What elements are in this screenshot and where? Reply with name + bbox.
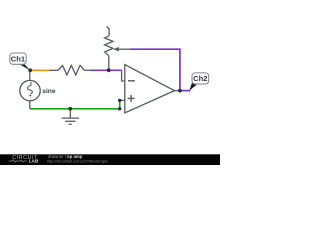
Ch1 probe pointer (19, 64, 30, 71)
ground symbol (69, 109, 71, 118)
svg-text:Ch1: Ch1 (11, 54, 26, 63)
rheostat R2 top lead with hook (107, 26, 110, 35)
rheostat R2 wiper arrow (118, 48, 130, 50)
op-amp U1 plus sign (128, 97, 135, 99)
voltage source V1 top lead (29, 70, 31, 80)
wire: green ground net from source bottom to op-amp non-inverting input (30, 100, 120, 108)
wire: op-amp inverting input step-down (gray) (122, 70, 125, 81)
voltage source V1 bottom lead (29, 101, 31, 109)
junction dot: R2 bottom / inverting net (107, 68, 111, 72)
Ch2 probe label (192, 73, 209, 84)
rheostat R2 zigzag (vertical) (105, 36, 113, 56)
wire: orange net Ch1 from source top junction to R1 left lead (30, 69, 50, 71)
wire: purple feedback net from rheostat wiper to output (top, right side) (130, 49, 191, 90)
op-amp U1 triangle (125, 65, 175, 113)
junction dot: Ch1 / source / R1 (28, 68, 32, 72)
op-amp U1 minus sign (128, 80, 135, 82)
resistor R1 zigzag (58, 65, 84, 75)
resistor R1 leads (gray) (50, 69, 59, 71)
svg-text:Ch2: Ch2 (193, 74, 207, 83)
junction dot: ground tap (68, 107, 72, 111)
voltage source V1 sine glyph (28, 82, 33, 94)
Ch2 probe pointer (189, 83, 196, 91)
voltage source V1 circle (20, 80, 40, 100)
footer bar (0, 154, 220, 165)
op-amp U1 non-inverting input lead (120, 99, 125, 101)
svg-text:LAB: LAB (29, 159, 39, 165)
svg-text:http://circuitlab.com/c/278bvd: http://circuitlab.com/c/278bvda7gdc (47, 158, 108, 163)
op-amp U1 output lead (175, 90, 181, 92)
rheostat R2 bottom lead (108, 56, 110, 71)
junction dot: green bend (118, 107, 121, 110)
Ch1 probe label (10, 53, 26, 64)
svg-text:sine: sine (42, 88, 56, 95)
junction dot: output / Ch2 (178, 89, 182, 93)
junction dot: non-inverting pin (118, 99, 121, 102)
wire: purple net from R1 right lead to op-amp inverting input step (90, 69, 121, 71)
